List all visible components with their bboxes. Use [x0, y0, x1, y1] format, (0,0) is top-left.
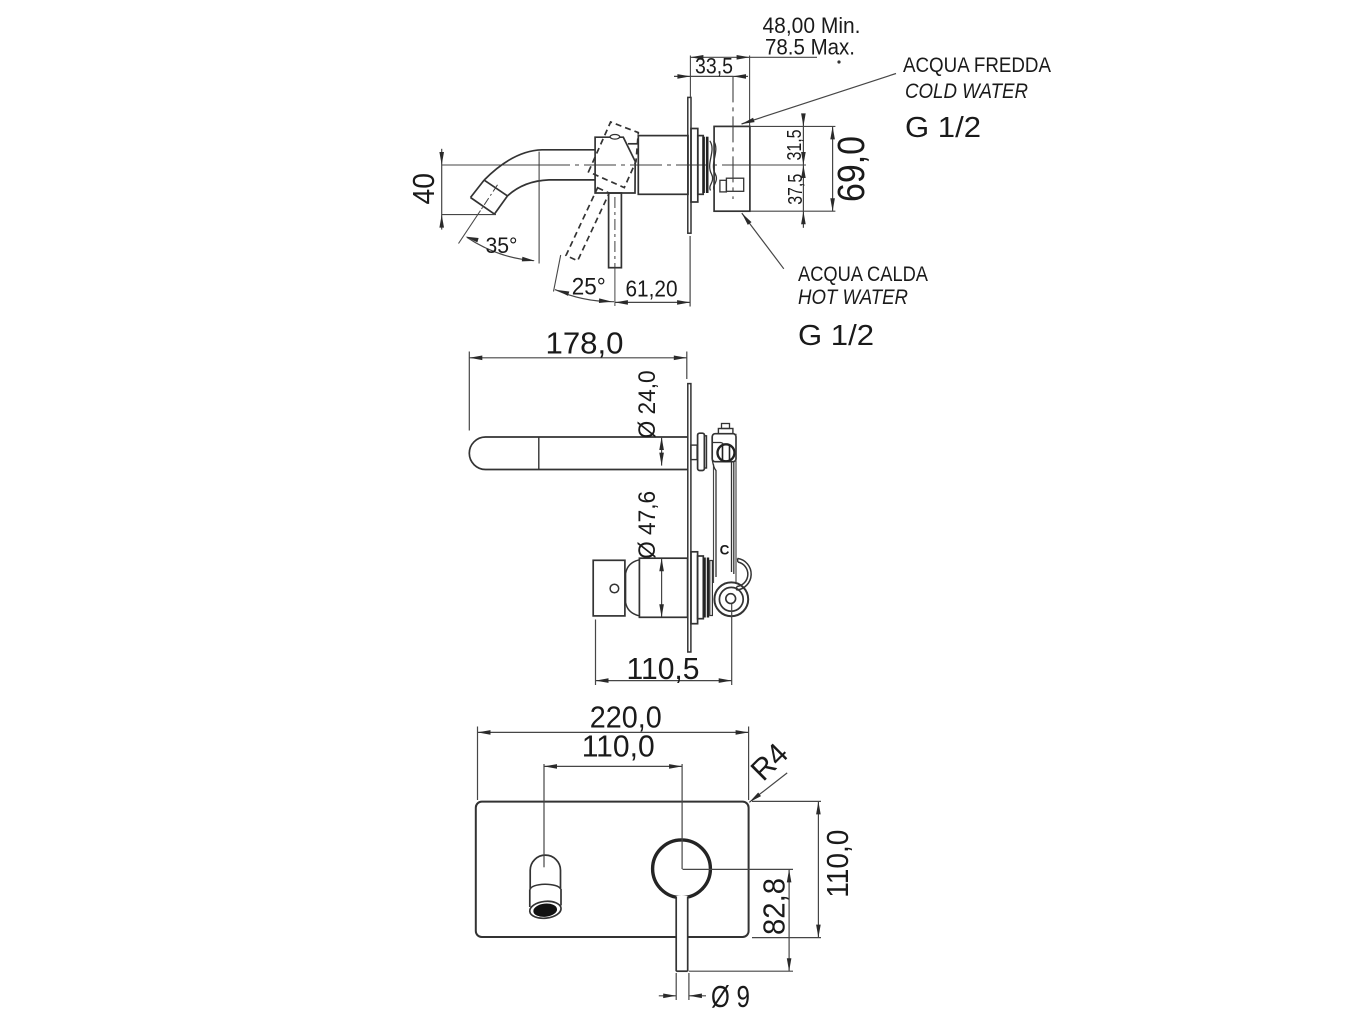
dimension 82,8 [683, 869, 794, 971]
locking ring (dark band) [704, 137, 708, 193]
centerline of faucet body (side view) [442, 164, 806, 166]
handle lever rod, open position (dashed) [566, 188, 609, 261]
handle lever rod (front view) [676, 896, 688, 971]
wall plate (side view) [688, 97, 691, 233]
spout nozzle tip (side view) [471, 180, 508, 214]
retaining clip arc (plan view) [736, 558, 751, 590]
spout connection fitting behind plate [691, 433, 707, 470]
spout outlet (front view) [529, 855, 562, 920]
svg-text:Ø 24,0: Ø 24,0 [634, 370, 661, 438]
dimension 220,0 [478, 699, 749, 800]
svg-text:Ø 47,6: Ø 47,6 [634, 491, 661, 559]
svg-text:69,0: 69,0 [831, 136, 873, 202]
retaining clip spring [710, 141, 717, 191]
svg-text:78.5 Max.: 78.5 Max. [765, 35, 855, 60]
label ACQUA CALDA / HOT WATER G 1/2 [798, 263, 928, 352]
dimension Ø 24,0 [634, 370, 664, 465]
svg-text:110,0: 110,0 [582, 728, 655, 763]
dimension 33,5 [674, 54, 748, 79]
dimension Ø 9 [659, 973, 750, 1011]
svg-text:61,20: 61,20 [626, 276, 678, 302]
svg-text:33,5: 33,5 [695, 54, 733, 79]
dimension Ø 47,6 [634, 491, 664, 617]
handle head (plan view) [593, 560, 625, 616]
hot water connection wheel (plan view) [714, 582, 748, 616]
svg-text:37,5: 37,5 [785, 174, 807, 205]
escutcheon flange behind plate (lower) [691, 552, 712, 624]
dimension 110,0 vertical [752, 801, 855, 937]
svg-text:110,5: 110,5 [627, 651, 700, 686]
handle knob (front view) [653, 840, 711, 898]
leader to cold water inlet [742, 74, 897, 125]
stray dot artifact [837, 60, 840, 63]
angle dimension 35° [459, 152, 540, 264]
dimension 48,00 Min - 78.5 Max [690, 13, 860, 126]
handle head, closed position (side view) [595, 135, 638, 194]
radius leader R4 [745, 737, 795, 802]
dimension 110,0 horizontal [544, 728, 682, 869]
letter C marking on bracket [720, 543, 730, 558]
svg-text:G 1/2: G 1/2 [905, 112, 981, 144]
svg-text:40: 40 [406, 173, 441, 205]
angle dimension 25° [554, 255, 615, 303]
svg-text:ACQUA FREDDA: ACQUA FREDDA [903, 54, 1051, 77]
svg-text:110,0: 110,0 [820, 830, 855, 898]
dimension 178,0 [469, 325, 687, 430]
dimension 31,5 [784, 113, 806, 227]
cold water elbow fitting (plan view) [712, 424, 736, 462]
handle head, open position (dashed) [589, 122, 639, 188]
svg-text:ACQUA CALDA: ACQUA CALDA [798, 263, 928, 286]
wall plate (plan view) [688, 384, 691, 652]
svg-text:35°: 35° [486, 233, 518, 258]
svg-text:82,8: 82,8 [757, 878, 792, 935]
valve body cylinder (side view) [638, 136, 688, 195]
svg-text:G 1/2: G 1/2 [798, 320, 874, 352]
svg-text:COLD WATER: COLD WATER [905, 80, 1028, 103]
leader to hot water inlet [742, 213, 784, 269]
escutcheon flange behind plate [691, 129, 703, 203]
dimension 110,5 [596, 604, 732, 686]
spout tube (plan view) [469, 437, 688, 470]
dimension 61,20 [615, 236, 690, 307]
mounting bracket arm (plan view) [712, 434, 736, 583]
svg-text:C: C [720, 543, 730, 558]
valve cartridge housing (plan view) [626, 558, 688, 617]
finished-wall reference line [732, 76, 734, 199]
dimension 40 [406, 149, 496, 230]
svg-text:31,5: 31,5 [784, 130, 806, 161]
dimension 37,5 [785, 165, 807, 224]
handle lever rod, closed position [609, 193, 622, 306]
spout tube (side view) [484, 150, 595, 196]
wall plate (front view) [476, 802, 749, 937]
in-wall mixer body (side view) [714, 126, 750, 211]
label ACQUA FREDDA / COLD WATER G 1/2 [903, 54, 1051, 144]
svg-text:25°: 25° [572, 274, 606, 301]
svg-text:HOT WATER: HOT WATER [798, 286, 908, 309]
svg-text:Ø 9: Ø 9 [711, 979, 750, 1011]
svg-text:178,0: 178,0 [546, 325, 624, 360]
dimension 69,0 [830, 126, 873, 211]
extension lines right of in-wall body [750, 126, 836, 211]
